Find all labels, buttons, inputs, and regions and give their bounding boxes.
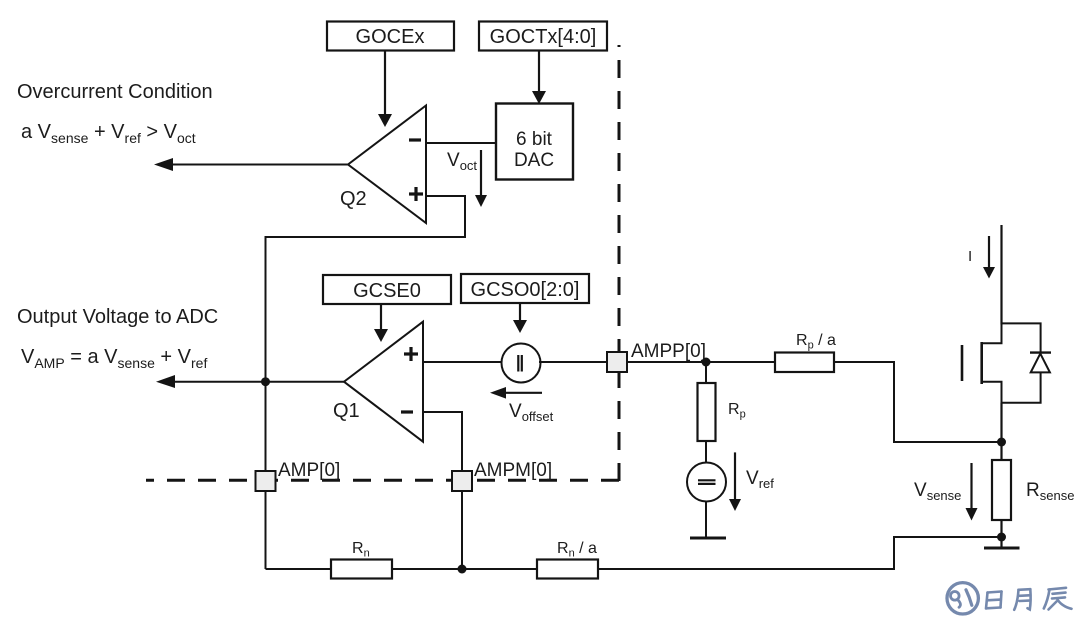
wire feedback node down through AMP pad to bottom rail (265, 382, 267, 471)
resistor Rn (331, 540, 392, 579)
wire AMPM pad down to bottom rail (461, 491, 463, 569)
label Vref with arrow (729, 452, 774, 511)
arrow GCSE0 to Q1 (374, 304, 388, 342)
svg-text:GCSO0[2:0]: GCSO0[2:0] (471, 279, 580, 301)
svg-text:Overcurrent Condition: Overcurrent Condition (17, 81, 213, 103)
wire MOSFET source to Rsense (1000, 403, 1002, 460)
logo glyph yue (moon) (1014, 589, 1030, 610)
svg-text:GOCTx[4:0]: GOCTx[4:0] (490, 26, 597, 48)
wire offset source to AMPP pad (539, 361, 607, 363)
dashed boundary (146, 45, 619, 481)
pad AMP[0] (256, 460, 341, 491)
arrow GOCTx to DAC (532, 51, 546, 105)
svg-text:Rp / a: Rp / a (796, 332, 836, 352)
bottom rail middle segment (392, 568, 537, 570)
DAC U1 "6 bit DAC" (496, 104, 573, 180)
svg-text:Rn / a: Rn / a (557, 540, 597, 560)
bottom rail right segment up to Rsense bottom node (598, 537, 1001, 569)
wire AMPP to Rp/a (627, 361, 775, 363)
svg-text:Output Voltage to ADC: Output Voltage to ADC (17, 306, 218, 328)
node dot AMPP net (702, 358, 711, 367)
node dot bottom rail (458, 565, 467, 574)
svg-text:AMPP[0]: AMPP[0] (631, 341, 706, 362)
wire AMPP node down to Rp (705, 362, 707, 383)
resistor Rn/a (537, 540, 598, 579)
svg-text:6 bit: 6 bit (516, 129, 553, 150)
wire Q1 output with arrow (156, 375, 344, 388)
source Vref (circle with =) (687, 441, 726, 538)
resistor Rp (698, 383, 746, 441)
resistor Rp/a (775, 332, 836, 372)
logo mark (circle with glyph) (947, 583, 978, 614)
svg-text:GOCEx: GOCEx (356, 26, 425, 48)
label Voffset with arrow (490, 387, 554, 424)
transistor M1 (MOSFET) (962, 323, 1002, 402)
offset source (circle with ||) (502, 344, 541, 383)
wire Q2 output with arrow (154, 158, 348, 171)
logo glyph ri (sun) (986, 592, 1002, 609)
arrow GOCEx to comparator Q2 (378, 51, 392, 128)
svg-text:AMPM[0]: AMPM[0] (474, 460, 552, 481)
svg-text:Q1: Q1 (333, 400, 360, 422)
logo glyph chen (dragon) (1044, 588, 1072, 610)
node dot MOSFET source (997, 438, 1006, 447)
label Voct with arrow (447, 150, 487, 207)
node dot Rsense bottom (997, 533, 1006, 542)
register box GCSE0 (323, 275, 451, 304)
wire Q1 noninverting input to offset source (423, 361, 501, 363)
supply wire with current I (1000, 225, 1002, 325)
pad AMPP[0] (607, 341, 706, 372)
wire Q1 inverting input to AMPM pad (423, 412, 462, 471)
svg-text:a Vsense + Vref > Voct: a Vsense + Vref > Voct (21, 121, 196, 146)
ground at Rsense (984, 547, 1020, 550)
bottom rail left segment (266, 568, 332, 570)
op-amp Q1 (333, 322, 423, 442)
ground below Vref (690, 537, 726, 540)
wire Rsense bottom to ground node (1000, 520, 1002, 548)
body diode D1 (1001, 323, 1052, 402)
wire Q2 inverting input from DAC (426, 142, 496, 144)
label Vsense with arrow (914, 463, 978, 521)
label I with arrow (968, 236, 995, 279)
svg-text:I: I (968, 248, 972, 265)
resistor Rsense (992, 460, 1074, 520)
node dot Q1 output (261, 377, 270, 386)
svg-text:DAC: DAC (514, 150, 554, 171)
wire Q2 noninverting input (feedback from Q1 output node) (266, 196, 466, 382)
arrow GCSO0 to offset source (513, 303, 527, 333)
svg-text:Q2: Q2 (340, 188, 367, 210)
register box GOCTx[4:0] (479, 22, 607, 51)
pad AMPM[0] (452, 460, 552, 491)
register box GCSO0[2:0] (461, 274, 589, 303)
comparator Q2 (340, 106, 426, 224)
svg-text:AMP[0]: AMP[0] (278, 460, 340, 481)
register box GOCEx (327, 22, 454, 51)
wire Rp/a to MOSFET source node (834, 362, 1001, 442)
svg-text:GCSE0: GCSE0 (353, 280, 421, 302)
